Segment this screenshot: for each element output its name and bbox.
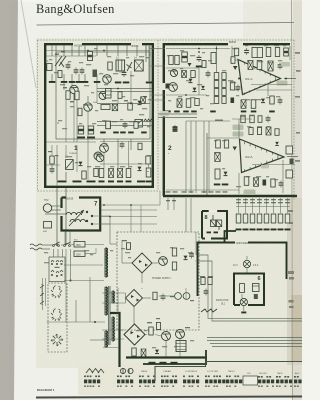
transformer primary winding [106,287,108,315]
wire [87,96,89,102]
winding dark backing [104,248,114,347]
ground [99,181,105,183]
dark cap [173,126,178,132]
value label [147,322,152,323]
right tan zone [287,198,302,365]
ground [250,229,256,231]
node N5 [94,321,96,323]
selector wafer 1 [51,286,62,299]
wire [102,329,124,331]
resistor R48 [257,214,262,223]
legend row small [294,376,307,378]
wire [238,119,240,138]
transformer secondary lower [113,317,115,341]
wire [158,117,197,119]
wire [158,113,197,115]
supply bus thick 1 [126,356,207,358]
wire [259,198,261,213]
node N7 [65,243,67,245]
node N13 [103,50,105,52]
transistor Q6 [100,144,109,153]
ground [160,362,167,364]
legend row numbers [226,386,236,387]
fan symbol [51,334,63,346]
paper grain overlay [0,0,1,1]
wire [97,103,150,105]
wire to primary [64,280,104,282]
node N6 [56,244,58,246]
legend row numbers [117,386,133,387]
ground [146,181,152,183]
transistor Q2 [84,103,92,111]
wire [266,198,268,213]
wire [141,273,143,283]
wire [195,232,197,255]
psu thick vertical [110,313,120,367]
coil L5 [101,105,110,110]
lamp socket [253,284,260,292]
capacitor C8 [123,124,128,126]
transformer primary lower [106,331,108,347]
bridge rectifier 3 [124,324,145,345]
ceramic filter [106,89,112,99]
resistor R54 [172,262,176,270]
switch unit contacts [51,261,63,277]
ground [165,111,171,113]
legend row numbers [205,386,218,387]
value label [124,100,128,101]
diode D9 [155,350,159,354]
trimmer capacitor [127,62,133,71]
wire [78,74,80,81]
resistor R51 [278,214,283,223]
left block inner hwire [46,51,152,187]
marker triangle A [188,63,192,67]
resistor R77 [132,348,136,356]
capacitor C12 [197,57,202,59]
node junction on wall [152,47,155,50]
legend row bold [139,380,155,384]
node N10 [130,103,132,105]
box8 ground bars [207,232,212,234]
dashed outer border left [37,40,39,191]
wire [173,198,175,210]
value label [166,200,170,201]
wire [167,198,169,210]
capacitor C34 [120,144,125,146]
wire [102,302,126,304]
pin label [236,199,241,200]
IC1 pin ticks [245,62,276,94]
capacitor C3 [88,52,93,61]
wire [117,288,119,313]
value label [200,276,205,277]
wire [148,46,150,81]
ground [117,181,123,183]
wire [125,293,127,298]
resistor R2 [75,91,79,100]
legend row small [276,376,289,378]
node N12 [87,50,89,52]
wire [78,46,80,57]
block 2 frame bottom [163,195,297,197]
capacitor C25 [254,178,259,187]
wire [51,164,53,167]
resistor in box 6 [240,284,245,293]
transformer T1 winding A [66,212,82,215]
resistor R57 [202,61,206,68]
wire [208,121,210,193]
resistor R4 [108,62,112,70]
resistor R15 [169,56,173,65]
wire into switch unit [57,249,59,257]
legend row small [205,376,221,378]
wire [267,84,269,96]
pin label [278,199,283,200]
transformer T1 winding B [70,219,86,222]
legend row numbers [276,386,292,387]
tuner sub-section box [56,52,150,139]
ground [87,137,95,139]
legend row small [84,376,100,378]
diode D1 [138,101,142,105]
value label [209,191,214,192]
capacitor C21 [50,169,55,171]
left grey page edge [0,0,18,400]
resistor zigzag [144,119,153,122]
resistor R39 [241,115,245,123]
wire right of switch unit [70,249,72,281]
pin label [243,202,248,203]
resistor R10 [126,169,131,178]
value label [166,191,171,192]
value label [55,155,59,156]
ground [264,229,270,231]
capacitor C33 [266,118,271,120]
block 1 frame top-right segment [82,43,152,45]
resistor R5 [128,103,133,110]
node N2 [285,78,287,80]
marker triangle IC1 [233,66,237,70]
ground [174,111,180,113]
wire [97,121,152,123]
transistor Q3 [103,75,112,84]
legend row bold [226,380,242,384]
transistor Q5 [94,152,102,160]
legend row bold [294,380,310,384]
wire bridge2 to bridge3 [133,307,135,325]
resistor R60 [201,278,205,285]
resistor R61 [134,122,138,129]
ground [76,81,83,83]
ground [285,229,291,231]
pin label [264,199,269,200]
resistor R59 [258,116,262,123]
wire [61,244,64,246]
wire [241,294,243,298]
pin label [278,202,283,203]
ground [61,81,68,83]
dashed outer border top [38,39,295,41]
wire [185,121,187,193]
ground [257,229,263,231]
value label [182,191,187,192]
wire [179,339,181,358]
wire [45,209,61,211]
wire [122,262,132,264]
resistor R20 [214,81,219,88]
legend row numbers [139,386,155,387]
resistor [126,243,130,250]
diode D11 [275,142,279,145]
ground [87,181,96,183]
right block inner hwires [166,48,290,190]
ground [251,111,256,113]
pin label [271,202,276,203]
legend row small [117,376,130,378]
block 2 frame top [163,43,290,45]
mains wire down [65,188,67,244]
selector wafer 2 [51,309,62,322]
wire [159,191,161,205]
resistor R55 [58,71,62,78]
capacitor C5 [112,104,118,111]
pin label [250,199,255,200]
pin label [285,199,290,200]
wire [238,198,240,213]
capacitor C32 [236,87,241,89]
resistor R53 [172,248,176,256]
trimmer [135,120,143,128]
wire [63,46,65,57]
box 7 frame [62,198,101,231]
tuned circuit L3 [116,60,125,71]
value label [190,300,194,301]
resistor right of IC2 b [286,170,293,178]
small label on IC2 edge [261,165,269,168]
wire [145,46,147,62]
ladder bus [236,206,290,208]
supply bus corner [205,350,207,364]
wire [130,139,132,150]
wire [243,306,245,311]
resistor R17 [211,53,216,64]
value label smudges [44,45,286,348]
wire [195,260,196,262]
resistor R26 [222,97,226,104]
diode D7 [261,99,265,103]
box7 to divider wires [65,198,191,244]
wire [246,268,248,274]
resistor R40 [250,115,254,123]
selector switch dashed box [48,283,67,352]
value label [170,296,174,297]
wire [113,302,119,304]
switch S1 [53,245,55,247]
wire [84,46,86,57]
legend row small [139,376,155,378]
switch S2 [64,245,66,247]
ladder L-wire [225,231,237,243]
value label [208,276,213,277]
ground [278,229,284,231]
resistor R25 [222,89,226,96]
resistor R23 [222,73,226,80]
resistor R37 [251,100,256,109]
block 1 frame top-left segment [45,43,73,45]
legend row small [258,376,271,378]
IC1 output wire [284,78,296,80]
wire [56,156,58,180]
ground [94,81,101,83]
resistor R43 [244,177,249,186]
wire [71,46,73,57]
capacitor C24 [266,127,271,135]
resistor R16 [175,56,179,65]
wire [155,335,161,337]
ground [196,66,203,68]
legend FM icon [120,368,133,374]
wire [96,46,98,57]
wire [71,244,74,245]
dark diode [263,180,267,186]
page fold line right [292,0,293,400]
legend row bold [276,380,292,384]
resistor R13 [146,156,150,164]
capacitor C6 [78,126,84,134]
mains wire down [56,188,58,244]
capacitor C26 [279,183,284,185]
resistor R11 [146,168,151,177]
wire [280,198,282,213]
node N15 [216,48,218,50]
ground [73,181,82,183]
wire [273,198,275,213]
resistor R50 [271,214,276,223]
diode D10 [201,86,205,89]
transistor Q7 [96,154,104,162]
resistor R14 [106,121,111,129]
capacitor C4 [122,72,127,74]
wire [73,94,75,100]
resistor R42 [257,128,261,135]
ground [241,312,246,314]
resistor R40 [44,222,52,229]
legend row bold [161,380,177,384]
IC2 output wire [287,156,298,158]
legend row numbers [294,386,310,387]
wire [45,205,61,207]
dashed section divider bottom of tuner [38,190,161,192]
capacitor C15 [173,127,178,129]
value label [63,87,67,88]
dark component at border [166,84,170,89]
shaded label B0541 [244,190,256,196]
resistor R71 [153,292,157,300]
bottom page rule [36,397,302,398]
box 8 frame [202,211,227,239]
wire [97,125,152,127]
capacitor C14 [177,99,182,108]
pin label [257,202,262,203]
resistor R31 [215,169,220,179]
node N1 [198,51,200,53]
capacitor C11 [182,52,188,62]
ground [183,111,189,113]
wire [216,46,218,73]
hatch scribble [201,309,217,312]
resistor R47 [250,214,255,223]
capacitor C20 [268,61,273,71]
wire [51,145,53,156]
ground [149,362,156,364]
wire to bridge 2 [141,288,143,289]
resistor R8 [94,169,98,177]
node N11 [117,88,119,90]
resistor R30 [224,140,228,148]
resistor R36 [230,82,234,90]
wire [159,295,174,297]
value label [70,101,74,102]
diode D1 detector [93,70,98,78]
wire [117,46,119,57]
wire [165,341,167,358]
legend row numbers [258,386,274,387]
wire [71,74,73,81]
indicator lamp DL1 [240,298,247,305]
transformer secondary winding [113,291,115,303]
wire [246,256,248,261]
wire [103,139,105,144]
value label [215,120,223,121]
wire [102,292,126,294]
mains switch unit box [49,257,65,282]
wire [195,121,197,193]
wire [289,46,291,60]
node N8 [109,216,111,218]
wire left [45,278,47,306]
wire [245,198,247,213]
resistor R6 [106,121,111,129]
resistor R35 [257,61,262,70]
wire [95,248,97,254]
ground [269,111,275,113]
marker triangle IC2 [233,147,237,151]
capacitor C28 [141,349,146,357]
ground [210,111,216,113]
diode pair circles [175,293,182,300]
thermistor TH1 [43,204,51,212]
ground [123,82,130,84]
resistor R29 [216,140,221,148]
capacitor C17 [244,50,249,52]
wire [121,240,123,263]
capacitor C18 [284,48,289,56]
capacitor C9 [109,169,114,178]
power supply dashed box [117,232,199,330]
wire [130,205,132,232]
capacitor C2 [80,70,85,72]
node N4 [70,280,72,282]
box 6 frame [234,274,264,306]
node N16 [185,94,187,96]
legend strip background [78,364,302,395]
ground [115,82,122,84]
IC2 pin ticks [245,142,278,171]
wire [56,244,58,245]
pin label [250,202,255,203]
resistor R52 [285,214,290,223]
